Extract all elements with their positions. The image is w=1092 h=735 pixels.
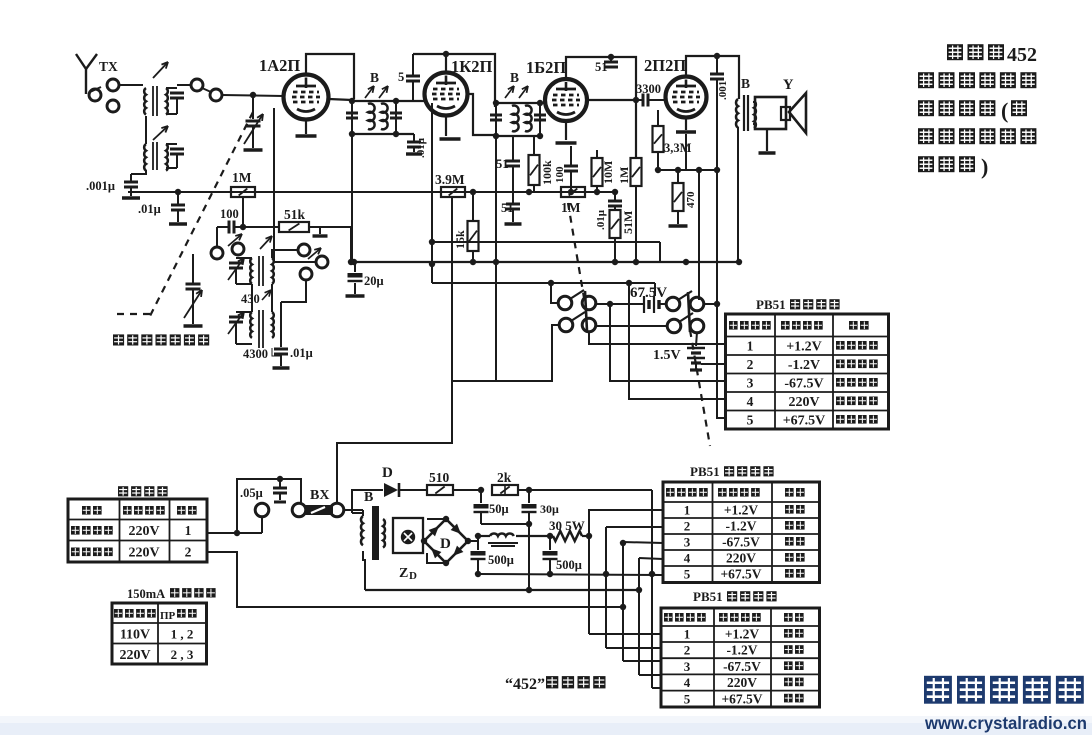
HT line to staircase — [529, 489, 652, 491]
filter cap bottom link — [481, 523, 529, 525]
svg-text:-67.5V: -67.5V — [722, 535, 760, 550]
label dual variable capacitor — [113, 334, 124, 345]
transformer primary top to diode line — [352, 490, 383, 513]
wire V2 grid AVC feed — [431, 103, 433, 283]
svg-text:+67.5V: +67.5V — [720, 567, 761, 582]
band switch arrow middle — [260, 236, 272, 249]
battery 1.5V — [696, 332, 697, 346]
IF transformer 2 — [495, 106, 540, 108]
svg-text:-1.2V: -1.2V — [788, 358, 820, 373]
V4 cathode ground — [685, 118, 687, 130]
power transformer B — [362, 510, 364, 516]
wire node to table row5 — [717, 304, 725, 418]
wire screen to switch — [698, 170, 700, 300]
band switch S2 contacts right — [298, 244, 310, 256]
svg-text:Y: Y — [783, 77, 794, 93]
svg-text:B: B — [370, 70, 379, 85]
bottom rail y=590 — [365, 589, 639, 591]
svg-text:2: 2 — [185, 545, 192, 560]
speaker Y — [755, 97, 786, 129]
table2 header cells — [666, 488, 675, 497]
svg-text:220V: 220V — [726, 551, 756, 566]
svg-text:.01μ: .01μ — [290, 346, 313, 360]
table5 header cells — [114, 609, 123, 618]
wire T1b bottom to node — [131, 170, 146, 174]
svg-text:4: 4 — [684, 551, 691, 566]
AVC bus y=283 — [432, 282, 655, 284]
svg-text:51: 51 — [595, 60, 608, 74]
svg-text:+67.5V: +67.5V — [783, 414, 826, 429]
svg-text:20μ: 20μ — [364, 274, 384, 288]
V3 top bracket wire — [566, 57, 636, 158]
svg-text:.001: .001 — [717, 81, 729, 100]
svg-text:110V: 110V — [120, 628, 150, 643]
svg-text:ΠP: ΠP — [160, 610, 176, 622]
antenna coil T1a — [144, 88, 146, 115]
svg-text:3.9M: 3.9M — [435, 172, 465, 187]
wire net minus1.2 — [606, 526, 663, 528]
svg-text:PB51: PB51 — [690, 464, 720, 479]
battery 67.5V — [643, 296, 645, 313]
wire switch to cap 100 — [216, 227, 218, 247]
lamp loop — [393, 518, 423, 553]
svg-text:BX: BX — [310, 488, 329, 503]
gang capacitor C1b — [192, 254, 194, 283]
capacitor 20u electrolytic — [354, 262, 356, 272]
svg-text:2Π2Π: 2Π2Π — [644, 56, 686, 75]
V1 top bracket wire — [306, 54, 354, 99]
capacitor .001u output vertical — [716, 56, 718, 73]
wire V4 cathode down — [685, 134, 687, 170]
IF1 left leg to bus — [351, 134, 353, 262]
coil T2 interconnect wires — [251, 284, 253, 312]
svg-text:1M: 1M — [617, 167, 631, 184]
svg-text:PB51: PB51 — [693, 589, 723, 604]
resistor 15k — [472, 192, 474, 221]
tube V4 2P2P — [666, 77, 707, 118]
wire to V1 grid — [222, 95, 283, 96]
svg-text:1A2Π: 1A2Π — [259, 56, 300, 75]
svg-text:3: 3 — [684, 535, 691, 550]
table mains plug title — [118, 486, 128, 496]
svg-text:51k: 51k — [284, 207, 306, 222]
resistor 1M AVC — [231, 187, 255, 197]
table fuse — [112, 603, 207, 664]
capacitor 30u — [528, 490, 530, 503]
svg-text:500μ: 500μ — [556, 558, 582, 572]
svg-text:470: 470 — [685, 191, 697, 208]
svg-text:2: 2 — [684, 519, 691, 534]
svg-text:.05μ: .05μ — [240, 486, 263, 500]
watermark crystalradio — [924, 676, 952, 704]
tube V3 1B2P — [545, 79, 587, 121]
IF transformer 1 — [352, 100, 396, 102]
wire 1M to detector node — [242, 197, 244, 227]
capacitor 51 pair below IF2 — [512, 136, 514, 160]
svg-text:B: B — [510, 70, 519, 85]
V2 top bracket wire — [413, 54, 495, 107]
wire 3.9M branch down — [451, 198, 453, 381]
svg-text:220V: 220V — [788, 395, 819, 410]
wire 51k to AVC bus — [320, 226, 351, 228]
svg-text:100: 100 — [220, 207, 239, 221]
svg-text:150mA: 150mA — [127, 587, 165, 601]
oscillator coil T2a — [250, 258, 252, 284]
svg-text:.001μ: .001μ — [86, 179, 115, 193]
svg-text:3: 3 — [747, 376, 754, 391]
mains plug prong 1 — [255, 503, 269, 517]
resistor 510 — [427, 485, 453, 495]
svg-text:4: 4 — [747, 394, 754, 409]
diode D — [384, 483, 398, 497]
wire antenna to coil — [119, 84, 143, 86]
AVC sub line y=242 — [432, 241, 660, 243]
svg-text:Z: Z — [399, 566, 408, 581]
tube V1 1A2P — [284, 75, 329, 120]
antenna TX — [76, 54, 86, 94]
wire fuse to transformer — [343, 509, 363, 511]
capacitor .01u osc — [280, 302, 282, 347]
svg-text:4300: 4300 — [243, 347, 268, 361]
capacitor 50u — [480, 490, 482, 503]
power switch K2 — [666, 297, 680, 311]
wire K1 to battery — [595, 303, 641, 305]
negative rail y=574 — [478, 574, 663, 575]
capacitor 500u first — [477, 536, 479, 550]
capacitor 5 — [412, 54, 414, 75]
svg-text:3: 3 — [684, 659, 691, 674]
svg-text:-67.5V: -67.5V — [784, 377, 823, 392]
wire K1 lower to mains — [337, 325, 559, 503]
V3 cathode ground — [565, 121, 567, 140]
resistor 2k — [492, 485, 518, 495]
table PB51 plug — [663, 482, 820, 583]
tube V2 1K2P — [425, 73, 468, 116]
wire net 220V — [639, 558, 663, 559]
switch link dashed 2 — [690, 330, 710, 446]
svg-text:.01μ: .01μ — [415, 137, 427, 158]
bridge rectifier D — [424, 519, 468, 563]
V1 plate wire — [329, 99, 352, 100]
band switch S2 contacts left — [211, 247, 223, 259]
wire net plus1.2 — [589, 510, 663, 536]
wire K1-K2 row2 — [595, 325, 668, 327]
svg-text:+1.2V: +1.2V — [724, 503, 759, 518]
capacitor .05u — [279, 479, 281, 487]
resistor 30 5W — [553, 531, 582, 541]
table PB51 socket — [661, 608, 820, 707]
svg-text:D: D — [440, 536, 451, 552]
svg-text:+1.2V: +1.2V — [786, 340, 822, 355]
neon lamp ZD — [401, 530, 415, 544]
svg-text:30μ: 30μ — [540, 502, 559, 516]
table4 header cells — [82, 506, 91, 515]
wire T1a bottom down to T1b — [145, 116, 147, 144]
svg-text:.01μ: .01μ — [595, 209, 607, 230]
title text block — [947, 44, 963, 60]
V4 top bracket wire — [686, 56, 739, 99]
resistor 100k — [533, 136, 535, 155]
oscillator input coil T1b — [144, 144, 146, 171]
capacitor .01u and resistor 51M — [614, 192, 616, 200]
svg-text:.01μ: .01μ — [138, 202, 161, 216]
V2 cathode ground — [445, 116, 447, 136]
svg-text:5: 5 — [398, 70, 404, 84]
svg-text:1К2Π: 1К2Π — [451, 57, 492, 76]
svg-text:PB51: PB51 — [756, 297, 786, 312]
svg-text:): ) — [981, 154, 988, 179]
secondary winding — [386, 518, 387, 520]
svg-text:TX: TX — [99, 59, 118, 74]
wire net minus67.5 — [623, 542, 663, 543]
svg-text:220V: 220V — [128, 546, 159, 561]
svg-text:1: 1 — [747, 339, 754, 354]
wire AVC to table row4 — [629, 283, 725, 399]
svg-text:1: 1 — [185, 523, 192, 538]
svg-text:D: D — [409, 570, 417, 582]
table PB51 power unit — [726, 314, 889, 429]
svg-text:220V: 220V — [727, 675, 757, 690]
bridge connections — [427, 518, 446, 520]
capacitor 100 — [228, 221, 231, 234]
output transformer B — [736, 99, 738, 128]
wire coil T1a to switch contact — [177, 84, 191, 86]
trimmer capacitor 4300 — [236, 311, 252, 313]
switch link dashed 1 — [568, 203, 584, 298]
V3 plate wire — [586, 99, 636, 101]
V2 plate wire to IF2 — [466, 94, 495, 135]
speaker ground — [766, 129, 768, 151]
svg-text:4: 4 — [684, 675, 691, 690]
resistor 1M vertical — [631, 158, 642, 186]
svg-text:-67.5V: -67.5V — [723, 659, 761, 674]
svg-text:2k: 2k — [497, 470, 512, 485]
wire battery to table row2 — [701, 363, 725, 365]
resistor 3.9M — [441, 187, 465, 197]
wire mains row2 to bottom rail — [206, 552, 623, 607]
table4 rows — [71, 526, 80, 535]
svg-text:-1.2V: -1.2V — [725, 519, 756, 534]
IF2 tuning arrows — [505, 86, 514, 98]
svg-text:3,3M: 3,3M — [664, 141, 692, 155]
tuning gang capacitor C1a — [252, 95, 254, 119]
svg-text:220V: 220V — [128, 524, 159, 539]
bottom blue margin strip — [0, 716, 1092, 724]
transformer bottom to rail — [363, 551, 365, 590]
wire K1 row1 to table — [589, 331, 725, 344]
table mains plug — [68, 499, 207, 562]
svg-text:+1.2V: +1.2V — [725, 627, 760, 642]
svg-text:67.5V: 67.5V — [630, 285, 667, 301]
capacitor 100 vertical — [570, 146, 572, 165]
wave switch S1 contacts — [89, 89, 101, 101]
trimmer capacitor 430 — [236, 257, 252, 259]
svg-text:10M: 10M — [601, 161, 615, 184]
capacitor .01u IF1 — [413, 134, 415, 141]
svg-text:430: 430 — [241, 292, 260, 306]
capacitor .01u — [177, 192, 179, 204]
svg-text:-1.2V: -1.2V — [726, 643, 757, 658]
wire cap .05u branch — [237, 479, 301, 533]
svg-text:B: B — [741, 76, 750, 91]
svg-text:510: 510 — [429, 470, 450, 485]
svg-text:“452”: “452” — [505, 676, 545, 693]
svg-text:1: 1 — [684, 627, 691, 642]
V2 grid wire — [396, 100, 425, 102]
svg-text:1Б2Π: 1Б2Π — [526, 58, 566, 77]
resistor 470 — [673, 183, 684, 211]
svg-text:1M: 1M — [561, 200, 581, 215]
cathode bus y=262 — [351, 261, 741, 263]
V3 grid wire — [540, 102, 546, 104]
main grid bus y=192 — [128, 191, 615, 193]
svg-text:100: 100 — [554, 166, 566, 183]
wire net plus67.5 — [651, 490, 653, 688]
wire to switch K1 — [551, 283, 559, 303]
svg-text:2 , 3: 2 , 3 — [171, 647, 194, 662]
svg-text:50μ: 50μ — [489, 502, 509, 516]
table3 header cells — [664, 613, 673, 622]
table1 header cells — [729, 321, 738, 330]
gang link dashed line — [150, 112, 253, 316]
svg-text:5: 5 — [684, 567, 691, 582]
output line with choke — [478, 535, 490, 537]
screen bus y=170 — [658, 169, 717, 171]
svg-text:51M: 51M — [621, 211, 635, 234]
svg-text:+67.5V: +67.5V — [721, 691, 762, 706]
svg-text:452: 452 — [1007, 44, 1037, 66]
wire node to table row3 — [610, 304, 725, 381]
IF2 left leg to bus — [495, 136, 497, 262]
wire V1 oscillator grid — [273, 108, 275, 262]
wire mains row1 — [206, 532, 262, 534]
capacitor 500u second — [549, 536, 551, 550]
V1 cathode ground — [305, 120, 307, 134]
svg-text:1M: 1M — [232, 170, 252, 185]
resistor 10M — [596, 150, 598, 158]
svg-text:51: 51 — [501, 201, 514, 215]
resistor 3.3M — [657, 110, 659, 125]
resistor 51k — [279, 222, 309, 232]
svg-text:2: 2 — [684, 643, 691, 658]
wire IF2 leg to mains switch line — [495, 262, 497, 381]
capacitor .001u — [130, 174, 132, 181]
svg-text:B: B — [364, 490, 373, 505]
svg-text:2: 2 — [747, 357, 754, 372]
svg-text:(: ( — [1001, 98, 1008, 123]
svg-text:100k: 100k — [540, 160, 554, 185]
svg-text:220V: 220V — [119, 648, 150, 663]
svg-text:5: 5 — [684, 691, 691, 706]
svg-text:30 5W: 30 5W — [549, 518, 585, 533]
resistor 1M detector — [561, 187, 585, 197]
capacitor 51 top — [610, 57, 612, 61]
svg-text:1.5V: 1.5V — [653, 348, 681, 363]
switch contacts right of T1a — [191, 79, 203, 91]
svg-text:15k: 15k — [453, 230, 467, 249]
svg-text:D: D — [382, 465, 393, 481]
svg-text:1 , 2: 1 , 2 — [171, 627, 194, 642]
svg-text:5: 5 — [747, 413, 754, 428]
svg-text:1: 1 — [684, 503, 691, 518]
oscillator coil T2b — [250, 312, 252, 338]
svg-text:500μ: 500μ — [488, 553, 514, 567]
wire K2 to node — [703, 303, 717, 305]
svg-text:www.crystalradio.cn: www.crystalradio.cn — [924, 713, 1087, 733]
svg-text:51: 51 — [496, 157, 509, 171]
wire filter link down — [528, 524, 530, 590]
IF1 tuning arrows — [365, 86, 374, 98]
power switch K1 — [558, 296, 572, 310]
